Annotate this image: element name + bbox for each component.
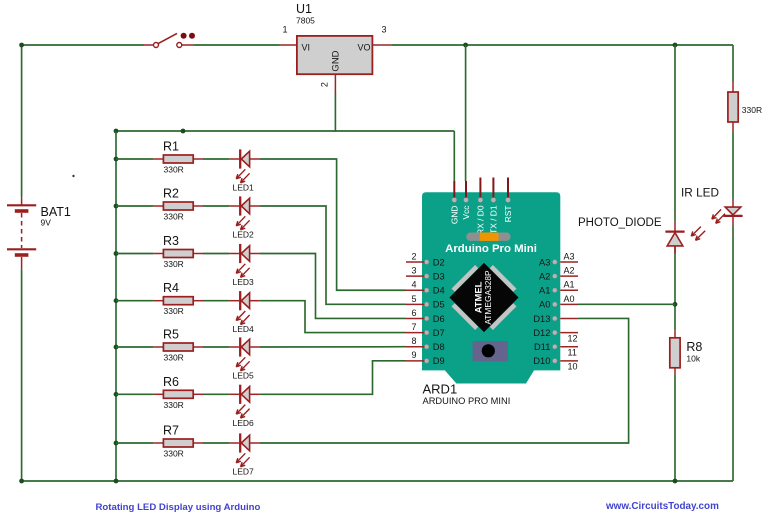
LED7 triangle [241, 435, 249, 451]
svg-text:A1: A1 [564, 280, 575, 290]
wire R8 to ground bus [674, 375, 676, 482]
svg-text:Arduino Pro Mini: Arduino Pro Mini [445, 243, 537, 255]
Arduino left pad D2 [424, 260, 429, 265]
svg-text:VO: VO [358, 43, 371, 53]
resistor R7 body [163, 439, 193, 447]
svg-text:LED1: LED1 [233, 183, 255, 193]
resistor 330R body [728, 92, 738, 122]
LED1 anode lead [229, 158, 239, 160]
wire bus to R6 [116, 393, 154, 395]
svg-text:ARDUINO PRO MINI: ARDUINO PRO MINI [423, 396, 511, 406]
svg-text:LED5: LED5 [233, 371, 255, 381]
svg-text:4: 4 [411, 280, 416, 290]
IR LED bottom lead [732, 217, 734, 226]
svg-text:A3: A3 [564, 251, 575, 261]
photodiode top lead [674, 222, 676, 231]
wire left battery rail upper [21, 44, 23, 197]
svg-text:RX / D0: RX / D0 [476, 205, 486, 235]
Arduino right pad D12 [553, 330, 558, 335]
LED6 cathode bar [239, 385, 241, 404]
svg-text:D12: D12 [533, 328, 550, 338]
svg-text:3: 3 [382, 25, 387, 35]
svg-text:R7: R7 [163, 424, 179, 438]
resistor R4 body [163, 297, 193, 305]
node R8 ground junction [673, 479, 678, 484]
IR LED top lead [732, 199, 734, 207]
LED3 emission arrow b [241, 268, 250, 278]
svg-text:LED3: LED3 [233, 277, 255, 287]
LED7 emission arrow a [236, 453, 245, 463]
resistor R6 left lead [154, 393, 164, 395]
svg-text:A2: A2 [564, 266, 575, 276]
wire LED3 to pin D6 [259, 254, 406, 319]
svg-text:11: 11 [568, 348, 577, 358]
wire bus to R5 [116, 346, 154, 348]
svg-text:ARD1: ARD1 [423, 381, 458, 396]
battery BAT1 cell 1 short plate [15, 209, 29, 213]
LED4 cathode lead [250, 300, 260, 302]
svg-text:330R: 330R [164, 306, 184, 316]
resistor R8 top lead [674, 330, 676, 338]
svg-text:A1: A1 [539, 286, 550, 296]
switch left stub [144, 44, 153, 46]
svg-text:U1: U1 [296, 2, 312, 16]
LED5 emission arrow b [241, 361, 250, 371]
Arduino left pin stub D6 [406, 317, 425, 319]
wire LED5 to pin D8 [259, 346, 406, 348]
wire GND bus down to Arduino GND pin [453, 131, 455, 181]
Arduino left pin stub D3 [406, 275, 425, 277]
node row 2 junction [114, 204, 119, 209]
LED2 anode lead [229, 205, 239, 207]
svg-text:ATMEL: ATMEL [473, 281, 484, 313]
wire photodiode branch upper [674, 45, 676, 222]
resistor 330R bottom lead [732, 122, 734, 132]
wire R4 to LED4 [203, 300, 229, 302]
svg-text:9: 9 [411, 350, 416, 360]
LED5 emission arrow a [236, 357, 245, 367]
node row 4 junction [114, 298, 119, 303]
LED7 emission arrow b [241, 457, 250, 467]
Arduino top pad GND [452, 198, 457, 203]
battery BAT1 cell 2 short plate [15, 253, 29, 257]
switch left terminal [154, 43, 159, 48]
Arduino left pad D9 [424, 359, 429, 364]
resistor 330R (IR LED series) top lead [732, 82, 734, 92]
wire R3 to LED3 [203, 253, 229, 255]
Arduino top pad Vcc [464, 198, 469, 203]
svg-text:10: 10 [568, 362, 578, 372]
regulator U1 pin 1 lead [280, 44, 297, 46]
LED6 triangle [241, 387, 249, 403]
svg-text:7: 7 [411, 322, 416, 332]
Arduino right pad D10 [553, 359, 558, 364]
Arduino left pin stub D2 [406, 261, 425, 263]
resistor R7 left lead [154, 442, 164, 444]
svg-text:2: 2 [411, 251, 416, 261]
LED2 cathode lead [250, 205, 260, 207]
wire R2 to LED2 [203, 205, 229, 207]
photodiode bottom lead [674, 246, 676, 254]
LED2 triangle [241, 198, 249, 214]
resistor R1 left lead [154, 158, 164, 160]
battery BAT1 cell 2 long plate [7, 248, 36, 250]
resistor R6 body [163, 390, 193, 398]
svg-text:A0: A0 [564, 294, 575, 304]
svg-text:10k: 10k [686, 354, 700, 364]
wire LED4 to pin D7 [259, 301, 406, 333]
LED4 anode lead [229, 300, 239, 302]
Arduino left pin stub D8 [406, 346, 425, 348]
LED6 emission arrow a [236, 405, 245, 415]
svg-text:LED7: LED7 [233, 467, 255, 477]
wire R6 to LED6 [203, 393, 229, 395]
wire U1 VO to right rail [392, 44, 733, 46]
battery BAT1 cell 1 long plate [7, 204, 36, 206]
svg-text:GND: GND [450, 206, 460, 225]
Arduino Vcc pin lead [465, 181, 467, 198]
LED3 cathode lead [250, 253, 260, 255]
svg-text:9V: 9V [41, 218, 52, 228]
wire photodiode branch mid [674, 246, 676, 330]
svg-text:6: 6 [411, 308, 416, 318]
LED3 emission arrow a [236, 264, 245, 274]
Arduino right pad A0 [553, 302, 558, 307]
svg-text:330R: 330R [742, 105, 762, 115]
Arduino right pin stub A3 [560, 261, 578, 263]
LED2 emission arrow a [236, 216, 245, 226]
resistor R2 body [163, 202, 193, 210]
wire LED7 to pin D13 [259, 318, 628, 443]
wire U1 pin2 down to GND bus [334, 93, 336, 132]
node LED bus ground junction [114, 479, 119, 484]
LED1 triangle [241, 151, 249, 167]
svg-text:D3: D3 [433, 271, 445, 281]
LED3 triangle [241, 246, 249, 262]
svg-text:RST: RST [503, 206, 513, 223]
wire bus to R2 [116, 205, 154, 207]
svg-text:330R: 330R [164, 212, 184, 222]
Arduino right pad A1 [553, 288, 558, 293]
Arduino right pin stub D11 [560, 346, 578, 348]
Arduino left pad D5 [424, 302, 429, 307]
svg-text:330R: 330R [164, 259, 184, 269]
Arduino GND pin lead [453, 181, 455, 198]
svg-text:Vcc: Vcc [461, 206, 471, 220]
wire bus to R3 [116, 253, 154, 255]
Arduino left pad D4 [424, 288, 429, 293]
Arduino RST pin stub [507, 178, 509, 199]
Arduino right pin stub D10 [560, 360, 578, 362]
Arduino right pad A2 [553, 274, 558, 279]
wire LED2 to pin D5 [259, 206, 406, 304]
LED7 anode lead [229, 442, 239, 444]
Arduino right pin stub D13 [560, 317, 578, 319]
LED6 cathode lead [250, 393, 260, 395]
wire R7 to LED7 [203, 442, 229, 444]
svg-text:D7: D7 [433, 328, 445, 338]
svg-text:R1: R1 [163, 140, 179, 154]
svg-text:R4: R4 [163, 281, 179, 295]
photodiode incident arrow a [691, 227, 701, 237]
wire bus to R1 [116, 158, 154, 160]
resistor R8 bottom lead [674, 368, 676, 375]
wire Vcc rail down to Arduino Vcc pin [465, 45, 467, 181]
resistor R4 left lead [154, 300, 164, 302]
svg-text:PHOTO_DIODE: PHOTO_DIODE [578, 217, 662, 229]
svg-text:1: 1 [282, 25, 287, 35]
Arduino left pad D7 [424, 330, 429, 335]
IR LED emission arrow a [712, 209, 721, 219]
svg-text:LED4: LED4 [233, 324, 255, 334]
photodiode incident arrow b [696, 231, 706, 241]
svg-text:LED6: LED6 [233, 418, 255, 428]
svg-text:ATMEGA328P: ATMEGA328P [483, 270, 493, 325]
wire LED bus vertical [115, 131, 117, 481]
battery BAT1 bottom lead [21, 257, 23, 270]
svg-text:5: 5 [411, 294, 416, 304]
regulator U1 pin 3 lead [372, 44, 392, 46]
svg-text:A2: A2 [539, 271, 550, 281]
Arduino left pad D3 [424, 274, 429, 279]
wire A0 to photodiode junction [578, 303, 675, 305]
svg-text:GND: GND [331, 50, 342, 71]
wire LED1 to pin D4 [259, 159, 406, 290]
Arduino left pin stub D9 [406, 360, 425, 362]
resistor R5 body [163, 343, 193, 351]
LED4 emission arrow b [241, 315, 250, 325]
svg-text:D2: D2 [433, 257, 445, 267]
node LED bus junction [181, 129, 186, 134]
LED2 cathode bar [239, 196, 241, 215]
Arduino board ARD1 body [422, 192, 560, 383]
LED1 emission arrow b [241, 173, 250, 183]
node bottom-left corner [19, 479, 24, 484]
LED1 emission arrow a [236, 169, 245, 179]
svg-text:D9: D9 [433, 356, 445, 366]
node junction to photodiode branch [673, 43, 678, 48]
Arduino right pin stub A2 [560, 275, 578, 277]
IR LED triangle [725, 207, 741, 215]
resistor R3 left lead [154, 253, 164, 255]
LED2 emission arrow b [241, 220, 250, 230]
Arduino top pad RX / D0 [478, 198, 483, 203]
LED6 anode lead [229, 393, 239, 395]
wire right rail lower (IR LED to ground bus) [732, 226, 734, 482]
Arduino reset button [473, 341, 508, 361]
svg-text:VI: VI [302, 43, 311, 53]
wire left battery rail lower [21, 270, 23, 481]
svg-text:D10: D10 [533, 356, 550, 366]
LED3 cathode bar [239, 244, 241, 263]
resistor R2 right lead [193, 205, 203, 207]
LED5 cathode lead [250, 346, 260, 348]
LED4 cathode bar [239, 291, 241, 310]
wire right rail upper (to 330R) [732, 45, 734, 82]
microcontroller U2 ATMEGA328P body [449, 263, 518, 332]
regulator U1 body [297, 36, 373, 74]
IR LED emission arrow b [716, 214, 725, 224]
svg-text:330R: 330R [164, 400, 184, 410]
resistor R5 right lead [193, 346, 203, 348]
wire R5 to LED5 [203, 346, 229, 348]
Arduino programming header capsule [466, 233, 510, 241]
wire bus to R4 [116, 300, 154, 302]
resistor R3 body [163, 250, 193, 258]
node A0 junction [673, 302, 678, 307]
svg-text:A3: A3 [539, 257, 550, 267]
svg-text:A0: A0 [539, 300, 550, 310]
regulator U1 pin 2 lead [334, 74, 336, 93]
Arduino left pin stub D4 [406, 289, 425, 291]
resistor R4 right lead [193, 300, 203, 302]
resistor R3 right lead [193, 253, 203, 255]
battery BAT1 top lead [21, 197, 23, 205]
svg-text:D11: D11 [534, 342, 550, 352]
wire bottom ground bus [22, 480, 733, 482]
LED1 cathode bar [239, 149, 241, 168]
svg-text:R6: R6 [163, 375, 179, 389]
resistor R7 right lead [193, 442, 203, 444]
svg-text:12: 12 [568, 333, 578, 343]
wire bus to R7 [116, 442, 154, 444]
wire top supply bus left segment [22, 44, 144, 46]
node row 1 junction [114, 157, 119, 162]
Arduino right pin stub A1 [560, 289, 578, 291]
svg-text:3: 3 [411, 266, 416, 276]
svg-text:D5: D5 [433, 300, 445, 310]
LED7 cathode bar [239, 433, 241, 452]
node row 6 junction [114, 392, 119, 397]
wire LED supply bus horizontal [116, 130, 454, 132]
Arduino top pad RST [506, 198, 511, 203]
Arduino right pad A3 [553, 260, 558, 265]
Arduino right pin stub A0 [560, 303, 578, 305]
LED4 triangle [241, 293, 249, 309]
svg-text:R3: R3 [163, 234, 179, 248]
Arduino right pad D13 [553, 316, 558, 321]
Arduino right pad D11 [553, 344, 558, 349]
Arduino right pin stub D12 [560, 332, 578, 334]
svg-text:D4: D4 [433, 286, 445, 296]
Arduino RX/D0 pin stub [479, 178, 481, 199]
LED5 cathode bar [239, 337, 241, 356]
node row 3 junction [114, 251, 119, 256]
node row 5 junction [114, 345, 119, 350]
Arduino left pad D6 [424, 316, 429, 321]
switch right stub [182, 44, 194, 46]
switch actuator dot 1 [181, 33, 187, 39]
resistor R1 body [163, 155, 193, 163]
Arduino left pin stub D7 [406, 332, 425, 334]
photodiode body [667, 233, 683, 246]
wire right rail mid (330R to IR LED) [732, 132, 734, 200]
svg-text:R2: R2 [163, 187, 179, 201]
resistor R1 right lead [193, 158, 203, 160]
Arduino left pad D8 [424, 344, 429, 349]
LED4 emission arrow a [236, 311, 245, 321]
svg-text:LED2: LED2 [233, 230, 255, 240]
node LED bus corner [114, 129, 119, 134]
svg-text:www.CircuitsToday.com: www.CircuitsToday.com [605, 501, 719, 512]
wire R1 to LED1 [203, 158, 229, 160]
LED5 triangle [241, 339, 249, 355]
resistor R6 right lead [193, 393, 203, 395]
svg-text:Rotating LED Display using Ard: Rotating LED Display using Arduino [96, 502, 261, 513]
resistor R8 body [670, 338, 680, 368]
switch right terminal [177, 43, 182, 48]
svg-text:2: 2 [320, 82, 330, 87]
svg-text:330R: 330R [164, 165, 184, 175]
stray dot mark [72, 175, 74, 177]
resistor R5 left lead [154, 346, 164, 348]
Arduino top pad TX / D1 [491, 198, 496, 203]
svg-text:D13: D13 [533, 314, 550, 324]
wire switch to U1 VI [194, 44, 280, 46]
svg-text:7805: 7805 [296, 16, 315, 26]
LED7 cathode lead [250, 442, 260, 444]
LED1 cathode lead [250, 158, 260, 160]
node top-left corner [19, 43, 24, 48]
svg-text:D8: D8 [433, 342, 445, 352]
svg-text:R8: R8 [686, 340, 702, 354]
Arduino left pin stub D5 [406, 303, 425, 305]
svg-text:IR LED: IR LED [681, 186, 719, 200]
wire LED6 to pin D9 [259, 361, 406, 394]
svg-text:330R: 330R [164, 449, 184, 459]
node row 7 junction [114, 441, 119, 446]
photodiode cathode bar [665, 230, 684, 232]
IR LED cathode bar [723, 215, 742, 217]
svg-text:D6: D6 [433, 314, 445, 324]
switch actuator dot 2 [189, 33, 195, 39]
node VCC junction to Arduino Vcc [463, 43, 468, 48]
svg-text:TX / D1: TX / D1 [489, 205, 499, 234]
battery BAT1 dashed link [21, 213, 23, 248]
switch lever [158, 33, 177, 43]
LED6 emission arrow b [241, 409, 250, 419]
microcontroller U2 pin strips [490, 265, 517, 292]
svg-text:8: 8 [411, 336, 416, 346]
svg-text:330R: 330R [164, 353, 184, 363]
Arduino TX/D1 pin stub [492, 178, 494, 199]
resistor R2 left lead [154, 205, 164, 207]
LED5 anode lead [229, 346, 239, 348]
LED3 anode lead [229, 253, 239, 255]
svg-text:R5: R5 [163, 328, 179, 342]
